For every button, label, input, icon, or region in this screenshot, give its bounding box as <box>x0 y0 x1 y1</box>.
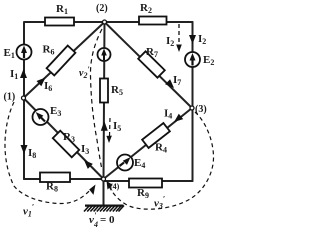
source E1 <box>17 45 32 60</box>
resistor R7 <box>138 51 165 77</box>
resistor R2 <box>139 17 167 25</box>
resistor R4 <box>142 123 170 148</box>
node 4 <box>102 177 106 181</box>
svg-text:(4): (4) <box>110 182 120 191</box>
wire diagonal node1-node2 <box>24 22 105 98</box>
node 1 <box>22 96 26 100</box>
svg-text:(2): (2) <box>96 3 108 14</box>
wire top horizontal <box>24 21 193 23</box>
arrow v1 end <box>89 185 95 195</box>
dashed loop v1 <box>5 102 91 204</box>
arrow I5 <box>101 121 108 131</box>
svg-text:= 0: = 0 <box>100 214 115 226</box>
resistor R3 <box>53 131 79 158</box>
arrow I7 <box>165 79 174 88</box>
arrow v3 end <box>107 181 113 190</box>
source E2 <box>185 52 200 67</box>
arrow I4 <box>174 114 183 122</box>
arrow I6 <box>37 78 46 87</box>
source E3 <box>33 109 49 125</box>
dashed arrow v2 end <box>109 118 112 136</box>
wire bottom left <box>24 178 104 180</box>
dashed arrow I2 <box>178 24 180 45</box>
arrow I3 <box>84 160 93 169</box>
arrow I8 <box>21 145 28 154</box>
resistor R5 <box>100 79 108 103</box>
svg-text:′: ′ <box>95 211 97 220</box>
svg-text:(1): (1) <box>4 92 16 103</box>
resistor R1 <box>45 18 74 26</box>
arrow I2 <box>189 35 196 44</box>
resistor R8 <box>40 173 70 183</box>
wire right vertical <box>192 22 194 181</box>
ground <box>84 206 124 212</box>
wire center vertical node2-node4 <box>104 22 105 179</box>
dashed loop v3 <box>109 112 214 209</box>
wire ground stub <box>103 179 105 205</box>
node 3 <box>190 106 194 110</box>
arrow I1 <box>20 69 27 78</box>
wire bottom right <box>104 180 193 182</box>
wire left vertical (1)-top corner <box>23 23 25 179</box>
resistor R9 <box>129 179 162 188</box>
node 2 <box>103 20 107 24</box>
source I5 (center, unlabeled) <box>98 48 111 61</box>
wire diagonal node2-node3 <box>105 22 193 108</box>
dashed line v2 <box>90 29 102 170</box>
source E4 <box>117 155 133 171</box>
wire diagonal node1-node4 <box>24 98 104 179</box>
resistor R6 <box>47 46 76 76</box>
wire diagonal node3-node4 <box>104 108 193 179</box>
svg-text:(3): (3) <box>195 104 207 115</box>
svg-text:4: 4 <box>93 220 98 229</box>
